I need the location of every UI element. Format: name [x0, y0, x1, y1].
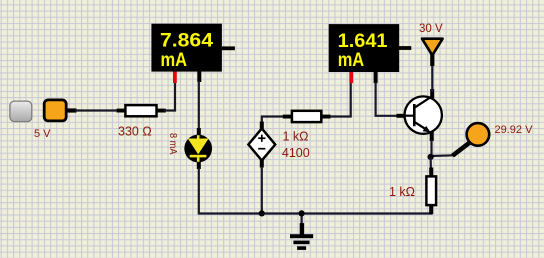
- svg-text:4100: 4100: [282, 146, 310, 160]
- wire LED down and bottom rail: [199, 168, 432, 214]
- ground: [290, 213, 313, 250]
- wire AM2 black lead to transistor base: [376, 82, 397, 116]
- push button of source: [10, 101, 32, 122]
- voltage source V1 5 V (orange square): [44, 100, 76, 121]
- svg-text:330 Ω: 330 Ω: [118, 124, 152, 138]
- wire diamond bottom to rail: [261, 167, 263, 214]
- svg-text:30 V: 30 V: [419, 23, 443, 35]
- controlled source (diamond): [248, 122, 275, 168]
- wire diamond top to R2 to AM2 red lead: [262, 117, 285, 128]
- svg-text:8 mA: 8 mA: [167, 133, 178, 155]
- wire junction to R3: [430, 157, 432, 170]
- svg-text:1 kΩ: 1 kΩ: [389, 185, 415, 199]
- ammeter AM2: [329, 24, 412, 83]
- resistor R3 1 kOhm (vertical): [426, 168, 436, 215]
- resistor R2 1 kOhm: [283, 111, 331, 122]
- resistor R1 330 ohm: [117, 105, 166, 116]
- junction at emitter node: [428, 154, 434, 160]
- svg-text:mA: mA: [338, 49, 365, 71]
- voltage source 30 V (triangle): [422, 39, 443, 66]
- voltage probe 29.92 V: [453, 123, 490, 156]
- ammeter AM1: [151, 24, 235, 83]
- wire AM1 black lead to LED: [198, 81, 200, 131]
- wire R1 to ammeter AM1 red lead: [164, 81, 175, 111]
- junction at ground: [299, 210, 305, 216]
- junction at diamond bottom: [259, 210, 265, 216]
- transistor Q1 (NPN): [397, 89, 442, 141]
- wire source to R1: [75, 109, 118, 111]
- svg-text:5 V: 5 V: [34, 128, 51, 140]
- wire junction to probe stick: [431, 154, 454, 157]
- svg-text:29.92 V: 29.92 V: [495, 124, 534, 136]
- svg-text:mA: mA: [161, 49, 188, 71]
- LED D1: [184, 128, 212, 169]
- wire 30V supply to collector: [431, 64, 433, 92]
- svg-text:1 kΩ: 1 kΩ: [283, 130, 309, 144]
- wire emitter to junction: [430, 140, 432, 157]
